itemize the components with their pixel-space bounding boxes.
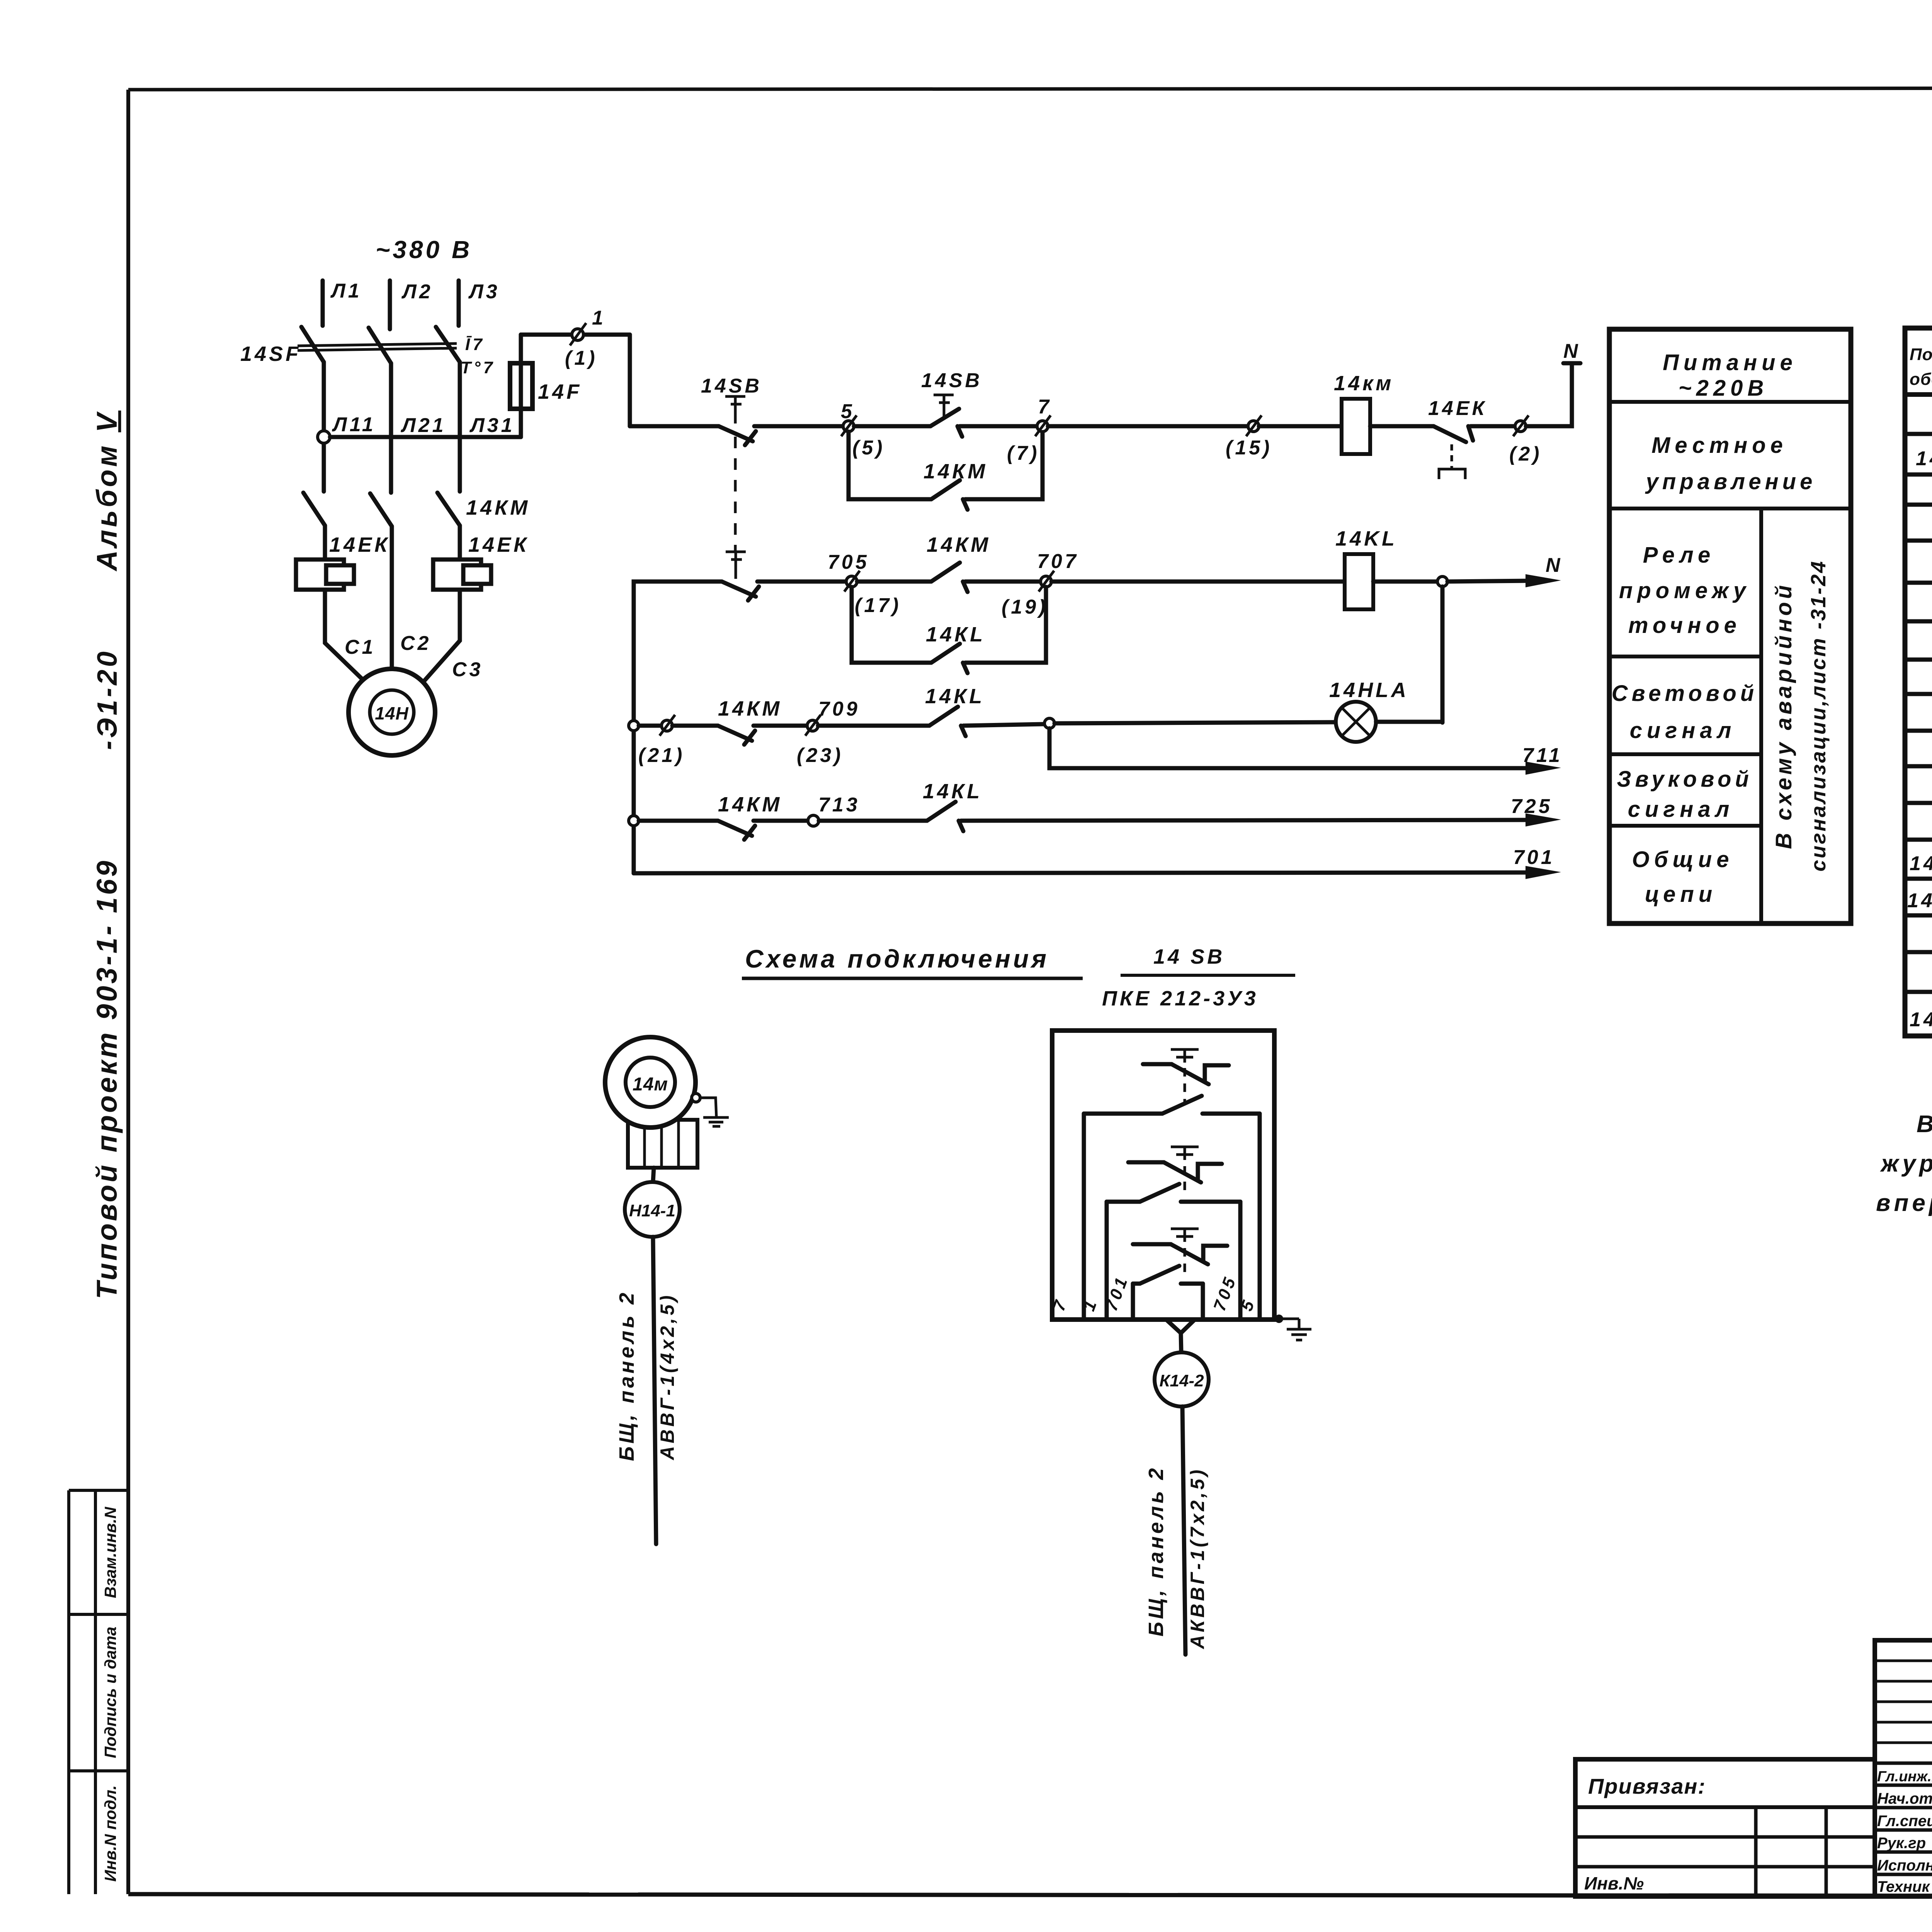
svg-text:Взам.инв.N: Взам.инв.N xyxy=(101,1506,119,1598)
contactor 14КМ pole 3 blade xyxy=(437,493,460,526)
svg-text:Реле: Реле xyxy=(1643,543,1715,568)
wire pole3 to heater xyxy=(458,526,462,560)
wire C3 xyxy=(424,590,460,681)
wire row2 seg3 xyxy=(857,580,931,584)
wire pole2 to motor xyxy=(390,526,394,669)
svg-text:711: 711 xyxy=(1522,744,1563,767)
node 1 circle xyxy=(570,323,586,345)
svg-text:14КL: 14КL xyxy=(926,623,985,646)
branch wire row2 self-hold xyxy=(852,587,931,663)
wire 711 branch xyxy=(1049,728,1530,768)
ground at box xyxy=(1279,1319,1311,1340)
cell Местное управление xyxy=(1645,433,1816,494)
breaker 14SF pole 3 blade xyxy=(436,327,460,362)
ground at motor xyxy=(692,1094,729,1126)
button1 link dashed xyxy=(1184,1068,1186,1104)
wire row1 seg6 xyxy=(1259,424,1342,429)
wire row2 N arrow xyxy=(1447,574,1561,587)
junction row3 left xyxy=(629,721,639,731)
cell Световой сигнал xyxy=(1612,681,1758,743)
motor 14М connection xyxy=(605,1037,696,1128)
wire U1 left xyxy=(1082,1114,1086,1317)
button1 contact upper xyxy=(1143,1064,1229,1084)
row Техник Колосанова xyxy=(1877,1878,1932,1895)
contact 14КМ NO row2 xyxy=(931,563,968,592)
wire lamp feed vertical xyxy=(1440,587,1445,723)
node 705 xyxy=(844,571,860,592)
junction row2 xyxy=(1437,577,1447,587)
node Л11 junction circle xyxy=(318,431,330,443)
wire U3 right xyxy=(1201,1284,1205,1317)
contact 14КL NO branch row2 xyxy=(931,644,968,673)
svg-text:Альбом V: Альбом V xyxy=(91,410,123,571)
svg-text:14SF: 14SF xyxy=(240,342,301,366)
svg-text:Исполн.: Исполн. xyxy=(1877,1857,1932,1874)
button2 contact upper xyxy=(1128,1162,1222,1182)
wire pole3 mid xyxy=(458,362,462,492)
button2 contact lower xyxy=(1107,1184,1240,1202)
wire U2 right xyxy=(1238,1202,1243,1317)
svg-text:впереди проставлен номер эл: впереди проставлен номер электропривода. xyxy=(1876,1190,1932,1216)
row Нач.отд Баранова xyxy=(1877,1790,1932,1807)
wire row3 seg3 xyxy=(753,724,807,728)
svg-text:14HLA: 14HLA xyxy=(1329,679,1409,702)
row 14SB xyxy=(1910,1009,1932,1031)
contact 14КL NO row3 xyxy=(929,707,966,736)
cable line motor xyxy=(653,1237,656,1544)
function table frame xyxy=(1609,329,1851,923)
node 7 xyxy=(1035,415,1051,436)
svg-text:N: N xyxy=(1546,554,1563,577)
mechanical link dashed 14SB xyxy=(734,437,737,551)
svg-text:Л21: Л21 xyxy=(400,414,446,437)
motor terminal box hatched xyxy=(628,1120,697,1168)
svg-text:Подпись и дата: Подпись и дата xyxy=(101,1627,119,1758)
cell Реле промежуточное xyxy=(1619,543,1750,638)
wire node1 horizontal xyxy=(521,333,630,337)
pushbutton 14SB stop contact row1 xyxy=(719,396,756,445)
button1 plunger xyxy=(1171,1049,1199,1063)
svg-text:705: 705 xyxy=(1210,1273,1240,1313)
svg-text:С3: С3 xyxy=(452,658,483,681)
node (21) xyxy=(660,715,675,736)
cell Общие цепи xyxy=(1632,847,1734,907)
node 5 xyxy=(841,415,857,436)
element list table grid xyxy=(1905,328,1932,1036)
svg-text:ПКЕ 212-3У3: ПКЕ 212-3У3 xyxy=(1102,987,1259,1010)
svg-text:Световой: Световой xyxy=(1612,681,1758,706)
svg-text:701: 701 xyxy=(1513,846,1555,869)
svg-text:14КМ: 14КМ xyxy=(923,460,988,483)
svg-text:Питание: Питание xyxy=(1663,350,1797,375)
breaker 14SF pole 2 blade xyxy=(369,328,391,363)
svg-text:Позиц.: Позиц. xyxy=(1910,345,1932,364)
svg-text:Общие: Общие xyxy=(1632,847,1734,872)
wire row2 left rail xyxy=(634,582,722,873)
svg-text:14КМ: 14КМ xyxy=(466,496,530,519)
svg-text:~220В: ~220В xyxy=(1679,376,1769,401)
cable marker Н14-1 xyxy=(625,1182,680,1237)
button3 contact upper xyxy=(1133,1244,1227,1264)
svg-text:Л2: Л2 xyxy=(401,281,433,303)
cell Звуковой сигнал xyxy=(1617,767,1753,822)
wire pole2 mid xyxy=(389,363,393,493)
svg-text:Гл.инж.пр.: Гл.инж.пр. xyxy=(1877,1769,1932,1785)
thermal relay 14ЕК heater pole3 xyxy=(433,560,491,590)
cell В схему аварийной сигнализации xyxy=(1771,560,1830,872)
wire row3 seg5 xyxy=(963,724,1044,726)
wire pole1 to heater xyxy=(323,526,327,560)
wire row2 seg2 xyxy=(757,580,846,584)
breaker 14SF pole 1 blade xyxy=(301,327,324,362)
note paragraph xyxy=(1876,1111,1932,1216)
svg-text:АКВВГ-1(7х2,5): АКВВГ-1(7х2,5) xyxy=(1187,1467,1208,1650)
svg-text:14ЕК: 14ЕК xyxy=(329,533,390,556)
svg-text:БЩ, панель 2: БЩ, панель 2 xyxy=(615,1290,638,1461)
motor 14Н xyxy=(349,669,435,755)
svg-text:промежу: промежу xyxy=(1619,578,1750,603)
wire row1 seg8 xyxy=(1471,424,1515,429)
wire row1 seg5 xyxy=(1048,424,1248,429)
svg-text:-Э1-20: -Э1-20 xyxy=(92,649,123,750)
thermal contact 14ЕК NC xyxy=(1434,426,1473,479)
svg-text:(17): (17) xyxy=(855,594,901,617)
arrow 711 xyxy=(1526,762,1561,775)
svg-text:14КМ: 14КМ xyxy=(718,793,782,816)
branch wire row2 right xyxy=(965,587,1046,663)
svg-text:В монтажных схемах щитов, в: В монтажных схемах щитов, в кабельном xyxy=(1917,1111,1932,1138)
svg-text:цепи: цепи xyxy=(1645,882,1717,907)
svg-text:~380 В: ~380 В xyxy=(376,236,472,264)
svg-text:725: 725 xyxy=(1511,795,1553,818)
svg-text:709: 709 xyxy=(818,698,860,720)
wire row3 seg2 xyxy=(672,724,718,728)
wire phase L3 top xyxy=(457,281,461,326)
arrow 725 xyxy=(1526,813,1561,827)
row 14KL xyxy=(1910,847,1932,880)
svg-text:Звуковой: Звуковой xyxy=(1617,767,1753,792)
svg-text:сигнал: сигнал xyxy=(1628,797,1734,822)
wire row2 seg5 xyxy=(1051,580,1345,584)
row 14М xyxy=(1916,439,1932,474)
cable exit V xyxy=(1166,1320,1195,1352)
button3 link dashed xyxy=(1184,1248,1186,1278)
node 707 xyxy=(1039,571,1054,592)
svg-text:АВВГ-1(4х2,5): АВВГ-1(4х2,5) xyxy=(656,1293,678,1461)
wire row2 seg6 xyxy=(1373,580,1437,584)
contact 14КМ NO row4 xyxy=(718,821,755,840)
svg-text:14м: 14м xyxy=(633,1074,668,1095)
wire phase L1 top xyxy=(321,281,325,326)
svg-text:14SB: 14SB xyxy=(1910,1009,1932,1031)
margin stamp table xyxy=(69,1490,128,1894)
button3 plunger xyxy=(1171,1229,1199,1242)
svg-text:Гл.спец.: Гл.спец. xyxy=(1877,1813,1932,1830)
button2 link dashed xyxy=(1184,1166,1186,1197)
wire fuse lead xyxy=(519,335,523,437)
branch wire row1 self-hold xyxy=(849,432,931,499)
svg-text:Л3: Л3 xyxy=(468,281,500,303)
label 14SB / ПКЕ 212-3У3 xyxy=(1102,945,1295,1010)
svg-text:(23): (23) xyxy=(797,744,843,767)
wire row3 seg4 xyxy=(818,724,929,728)
svg-text:Техник: Техник xyxy=(1877,1878,1930,1895)
svg-text:707: 707 xyxy=(1037,550,1079,573)
svg-text:1: 1 xyxy=(592,307,606,329)
wire motor to marker xyxy=(653,1168,654,1182)
row Гл.инж.пр Б.Левитан xyxy=(1877,1768,1932,1785)
wire row2 seg4 xyxy=(965,580,1041,584)
wire row1 seg7 xyxy=(1370,424,1434,429)
header Позиц.обозн xyxy=(1910,345,1932,389)
wire row1 seg2 xyxy=(754,424,843,429)
svg-text:14НLA: 14НLA xyxy=(1907,889,1932,912)
svg-text:журнале,в маркировке аппарато: журнале,в маркировке аппаратов и кабелей xyxy=(1880,1150,1932,1177)
svg-text:14КL: 14КL xyxy=(925,685,985,708)
contactor 14КМ pole 1 blade xyxy=(303,493,325,526)
svg-text:Инв.№: Инв.№ xyxy=(1584,1873,1644,1893)
contactor 14КМ pole 2 blade xyxy=(370,493,392,526)
junction row4 left xyxy=(629,816,639,826)
wire pole1 mid xyxy=(322,362,326,492)
signature grid xyxy=(1875,1640,1932,1896)
coil 14КМ xyxy=(1342,399,1370,454)
svg-text:Л31: Л31 xyxy=(469,414,515,437)
contact 14КМ NO row3 xyxy=(718,726,755,745)
svg-text:14ЕК: 14ЕК xyxy=(468,533,529,556)
wire U3 left xyxy=(1131,1284,1135,1317)
wire U1 right xyxy=(1258,1114,1262,1317)
svg-text:Рук.гр: Рук.гр xyxy=(1877,1835,1926,1852)
svg-text:сигнализации,лист -31-24: сигнализации,лист -31-24 xyxy=(1807,560,1830,872)
svg-text:14KL: 14KL xyxy=(1335,527,1397,550)
svg-text:(1): (1) xyxy=(565,347,598,369)
svg-text:В схему аварийной: В схему аварийной xyxy=(1771,582,1796,849)
wire row1 seg3 xyxy=(854,424,930,429)
junction row3 mid xyxy=(1044,718,1054,728)
svg-text:14 SВ: 14 SВ xyxy=(1153,945,1225,968)
wire U2 left xyxy=(1105,1202,1109,1317)
cable line buttons xyxy=(1182,1406,1185,1655)
wire row1 start xyxy=(630,424,719,429)
svg-text:(21): (21) xyxy=(638,744,685,767)
button3 contact lower xyxy=(1133,1266,1203,1284)
pushbutton 14SB stop contact row2 xyxy=(722,552,759,600)
svg-text:5: 5 xyxy=(841,400,855,423)
wire lamp to vertical xyxy=(1376,720,1442,724)
svg-text:Л1: Л1 xyxy=(330,280,362,302)
wire Л11 bus to fuse xyxy=(330,435,521,439)
svg-text:14КМ: 14КМ xyxy=(718,697,782,720)
cable marker К14-2 xyxy=(1155,1352,1209,1406)
node 713 xyxy=(808,815,819,826)
pushbutton station box xyxy=(1052,1031,1274,1320)
svg-text:Инв.N подл.: Инв.N подл. xyxy=(101,1785,119,1882)
svg-text:14КL: 14КL xyxy=(1910,852,1932,875)
terminal N row1 xyxy=(1563,340,1581,363)
svg-text:Т°7: Т°7 xyxy=(461,358,495,377)
node (15) xyxy=(1246,415,1262,436)
svg-text:14F: 14F xyxy=(538,380,582,403)
wire node1 down to row1 xyxy=(628,335,632,426)
svg-text:сигнал: сигнал xyxy=(1630,718,1736,743)
svg-text:БЩ, панель 2: БЩ, панель 2 xyxy=(1145,1466,1168,1637)
row Гл.спец А.Левитан xyxy=(1877,1813,1932,1830)
contact 14КМ NO branch row1 xyxy=(931,480,968,510)
wire row1 seg4 xyxy=(960,424,1037,429)
branch wire row1 right xyxy=(965,432,1043,499)
svg-text:14км: 14км xyxy=(1334,372,1394,395)
svg-text:точное: точное xyxy=(1628,613,1741,638)
svg-text:14КL: 14КL xyxy=(923,780,982,803)
svg-text:14SB: 14SB xyxy=(701,375,762,397)
lamp 14HLA xyxy=(1336,702,1376,742)
label I7 / T°7 xyxy=(461,335,495,377)
svg-text:713: 713 xyxy=(818,794,860,816)
svg-text:Типовой проект 903-1- 169: Типовой проект 903-1- 169 xyxy=(91,859,123,1299)
svg-text:С1: С1 xyxy=(345,636,376,658)
breaker 14SF trip bar xyxy=(298,344,457,350)
fuse 14F xyxy=(510,363,532,409)
wire row4 seg2 xyxy=(753,819,808,823)
svg-text:(7): (7) xyxy=(1007,442,1040,464)
svg-text:14ЕК: 14ЕК xyxy=(1428,397,1487,420)
arrow 701 xyxy=(1526,866,1561,879)
svg-text:Привязан:: Привязан: xyxy=(1588,1774,1706,1798)
svg-text:(15): (15) xyxy=(1226,437,1272,459)
thermal relay 14ЕК heater pole1 xyxy=(296,560,354,590)
contact 14КL NO row4 xyxy=(927,802,963,831)
wire row3 seg1 xyxy=(639,724,662,728)
svg-text:14КМ: 14КМ xyxy=(927,533,991,556)
svg-text:14М: 14М xyxy=(1916,447,1932,470)
title Схема подключения xyxy=(742,944,1083,978)
svg-text:7: 7 xyxy=(1038,396,1052,418)
wire C1 xyxy=(325,590,363,680)
svg-text:управление: управление xyxy=(1645,469,1816,494)
pushbutton 14SB start contact row1 xyxy=(930,395,962,437)
row Исполн Боброва xyxy=(1877,1857,1932,1874)
svg-text:С2: С2 xyxy=(400,632,431,655)
button1 contact lower xyxy=(1084,1096,1260,1114)
svg-text:14SB: 14SB xyxy=(921,369,982,392)
coil 14KL xyxy=(1345,554,1373,609)
wire row4 seg1 xyxy=(639,819,718,823)
svg-text:Нач.отд: Нач.отд xyxy=(1877,1790,1932,1807)
wire row3 seg6 xyxy=(1054,722,1336,723)
row 14HLA xyxy=(1907,889,1932,912)
svg-text:(2): (2) xyxy=(1509,443,1542,465)
svg-text:К14-2: К14-2 xyxy=(1159,1371,1204,1390)
wire 725 xyxy=(961,820,1530,821)
button2 plunger xyxy=(1171,1147,1199,1160)
svg-text:Л11: Л11 xyxy=(332,413,376,436)
svg-text:(5): (5) xyxy=(852,437,885,459)
wire phase L2 top xyxy=(388,281,392,329)
node 709 xyxy=(805,715,821,736)
node (2) xyxy=(1513,415,1529,436)
wire 701 xyxy=(634,872,1530,873)
row Рук.гр Боброва xyxy=(1877,1835,1932,1852)
svg-text:Ī7: Ī7 xyxy=(465,335,485,354)
svg-text:Местное: Местное xyxy=(1651,433,1787,458)
svg-text:14Н: 14Н xyxy=(375,703,408,723)
привязан block xyxy=(1575,1759,1875,1896)
svg-text:N: N xyxy=(1563,340,1581,362)
wire row1 to N xyxy=(1526,363,1572,426)
svg-text:705: 705 xyxy=(828,551,869,573)
svg-text:обозн.: обозн. xyxy=(1910,370,1932,389)
cell Питание ~220В xyxy=(1663,350,1797,401)
svg-text:Схема подключения: Схема подключения xyxy=(745,944,1049,973)
junction dot box xyxy=(1275,1315,1283,1323)
svg-text:(19): (19) xyxy=(1002,596,1048,618)
wire row4 seg3 xyxy=(819,819,927,823)
svg-text:Н14-1: Н14-1 xyxy=(629,1201,675,1220)
